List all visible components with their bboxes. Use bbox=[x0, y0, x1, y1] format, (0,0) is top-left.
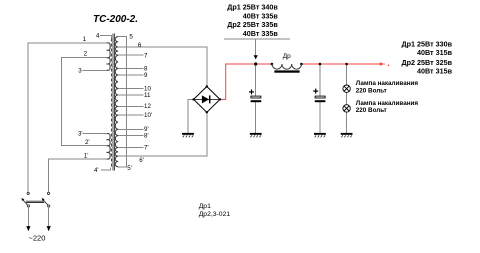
svg-text:ТС-200-2.: ТС-200-2. bbox=[93, 14, 138, 25]
ground (bridge rectifier) bbox=[182, 133, 194, 137]
capacitor C2 (polarized) bbox=[315, 96, 326, 102]
svg-text:Др1 25Вт 340в: Др1 25Вт 340в bbox=[227, 3, 278, 12]
transformer T1 core bbox=[113, 34, 114, 171]
lamp HL1 label bbox=[356, 80, 419, 94]
inductor L1 winding bbox=[272, 64, 301, 69]
ground (capacitor C2) bbox=[314, 133, 326, 137]
wire pin4 screen stub bbox=[100, 36, 112, 39]
output arrowhead (red) bbox=[380, 62, 384, 66]
junction inductor L1 left terminal bbox=[271, 63, 274, 66]
svg-text:7: 7 bbox=[144, 52, 148, 59]
svg-text:2': 2' bbox=[85, 139, 90, 146]
svg-text:Лампа накаливания: Лампа накаливания bbox=[356, 100, 419, 107]
callout pointer arrowhead bbox=[254, 55, 258, 59]
wire capacitor C1 upper lead bbox=[255, 64, 257, 96]
note text Др1 / Др2,3-021 bbox=[199, 203, 231, 218]
ground (capacitor C1) bbox=[250, 133, 262, 137]
junction VD1 AC bottom bbox=[206, 111, 208, 113]
svg-text:11: 11 bbox=[144, 92, 151, 99]
svg-text:Др: Др bbox=[283, 53, 291, 60]
wire pin8' stub bbox=[118, 135, 143, 137]
svg-text:220 Вольт: 220 Вольт bbox=[356, 87, 387, 94]
wire lamp branch HL1-HL2 to ground bbox=[346, 64, 348, 133]
wire pin12 stub bbox=[118, 106, 143, 108]
callout pointer line to node A bbox=[255, 39, 257, 55]
svg-text:3': 3' bbox=[78, 131, 83, 138]
svg-text:Др1: Др1 bbox=[199, 203, 211, 210]
svg-text:12: 12 bbox=[144, 103, 151, 110]
svg-text:9: 9 bbox=[144, 72, 148, 79]
junction inductor L1 right terminal bbox=[300, 63, 303, 66]
switch SA1 contact circles bbox=[27, 192, 50, 207]
svg-text:40Вт 315в: 40Вт 315в bbox=[417, 48, 453, 57]
wire capacitor C1 lower lead to ground bbox=[255, 102, 257, 133]
capacitor C2 polarity plus sign bbox=[313, 89, 318, 94]
node A voltage label (rectified) bbox=[227, 3, 278, 38]
wire pin6 to bridge VD1 AC input (top) bbox=[118, 47, 207, 85]
svg-text:7': 7' bbox=[144, 144, 149, 151]
wire pin8 stub bbox=[118, 68, 143, 70]
wire capacitor C2 lower lead to ground bbox=[319, 102, 321, 133]
lamp HL2 bbox=[343, 105, 350, 112]
wire pin7' stub bbox=[118, 147, 143, 149]
junction VD1 minus (left) bbox=[192, 98, 194, 100]
junction lamp branch tap bbox=[345, 63, 348, 66]
wire pin10 stub bbox=[118, 87, 143, 89]
bridge rectifier VD1 bbox=[194, 87, 220, 113]
svg-text:3: 3 bbox=[78, 68, 82, 75]
wire pin3' stub bbox=[83, 133, 108, 135]
svg-text:40Вт 335в: 40Вт 335в bbox=[243, 29, 279, 38]
wire capacitor C2 upper lead bbox=[319, 64, 321, 96]
svg-text:5': 5' bbox=[127, 165, 132, 172]
wire pin6' to bridge VD1 AC input (bottom) bbox=[118, 113, 207, 156]
wire pin4' screen stub bbox=[101, 167, 110, 170]
svg-text:4: 4 bbox=[96, 32, 100, 39]
junction VD1 AC top bbox=[206, 85, 208, 87]
transformer T1 primary winding lower half (taps 3',2',1') bbox=[106, 134, 110, 160]
inductor L1 core bar bbox=[274, 70, 299, 72]
svg-text:2: 2 bbox=[84, 51, 88, 58]
switch SA1 lever arrowhead A bbox=[21, 198, 24, 201]
svg-text:8': 8' bbox=[144, 132, 149, 139]
wire pin9' stub bbox=[118, 128, 143, 130]
svg-text:Др1 25Вт 330в: Др1 25Вт 330в bbox=[401, 39, 452, 48]
ground (lamps HL1,HL2) bbox=[341, 133, 353, 137]
svg-text:6: 6 bbox=[138, 42, 142, 49]
mains arrowhead B bbox=[47, 226, 51, 231]
switch SA1 levers and linkage bbox=[23, 200, 48, 205]
capacitor C1 (polarized) bbox=[251, 96, 262, 102]
svg-text:Лампа накаливания: Лампа накаливания bbox=[356, 80, 419, 87]
wire pin5 to pin5' (series link) bbox=[118, 37, 126, 167]
switch SA1 lever arrowhead B bbox=[42, 198, 45, 201]
wire switch SA1 to mains line A bbox=[27, 207, 29, 226]
svg-text:1: 1 bbox=[83, 36, 87, 43]
svg-text:220 Вольт: 220 Вольт bbox=[356, 107, 387, 114]
wire pin10' stub bbox=[118, 114, 143, 116]
svg-text:5: 5 bbox=[129, 34, 133, 41]
svg-text:1': 1' bbox=[84, 152, 89, 159]
svg-text:Др2,3-021: Др2,3-021 bbox=[199, 211, 231, 218]
svg-text:Др2 25Вт 335в: Др2 25Вт 335в bbox=[227, 20, 278, 29]
wire pin3 stub bbox=[83, 69, 108, 71]
callout underline for node label bbox=[224, 38, 290, 40]
lamp HL1 bbox=[343, 85, 350, 92]
svg-text:4': 4' bbox=[94, 167, 99, 174]
wire pin1' to switch SA1 pole B bbox=[48, 159, 107, 192]
svg-text:Др2 25Вт 325в: Др2 25Вт 325в bbox=[401, 58, 452, 67]
transformer T1 primary winding upper half (taps 1,2,3) bbox=[106, 43, 110, 71]
svg-text:~220: ~220 bbox=[29, 234, 46, 243]
wire pin7 stub bbox=[118, 54, 143, 56]
transformer T1 electrostatic screen (dashed, pins 4-4') bbox=[111, 39, 113, 168]
svg-text:40Вт 315в: 40Вт 315в bbox=[417, 67, 453, 76]
wire pin11 stub bbox=[118, 94, 143, 96]
lamp HL2 label bbox=[356, 100, 419, 114]
wire bridge VD1 minus to ground bbox=[188, 99, 194, 132]
junction capacitor C2 tap bbox=[319, 63, 322, 66]
svg-text:6': 6' bbox=[139, 157, 144, 164]
wire positive rail (red) from bridge VD1 plus to output bbox=[220, 64, 385, 99]
wire pin1 to switch SA1 pole A bbox=[28, 43, 107, 192]
wire pin2 to pin2' (series link) bbox=[62, 58, 108, 146]
junction VD1 plus (right) bbox=[219, 98, 221, 100]
transformer T1 secondary winding (taps 5..12, 10'..5') bbox=[115, 37, 118, 167]
wire pin9 stub bbox=[118, 74, 143, 76]
junction node A (C1 / callout) bbox=[254, 62, 257, 65]
svg-text:40Вт 335в: 40Вт 335в bbox=[243, 11, 279, 20]
wire switch SA1 to mains line B bbox=[48, 207, 50, 226]
svg-text:10': 10' bbox=[144, 112, 152, 119]
capacitor C1 polarity plus sign bbox=[249, 89, 254, 94]
output voltage label (right) bbox=[401, 39, 452, 75]
mains arrowhead A bbox=[26, 226, 30, 231]
